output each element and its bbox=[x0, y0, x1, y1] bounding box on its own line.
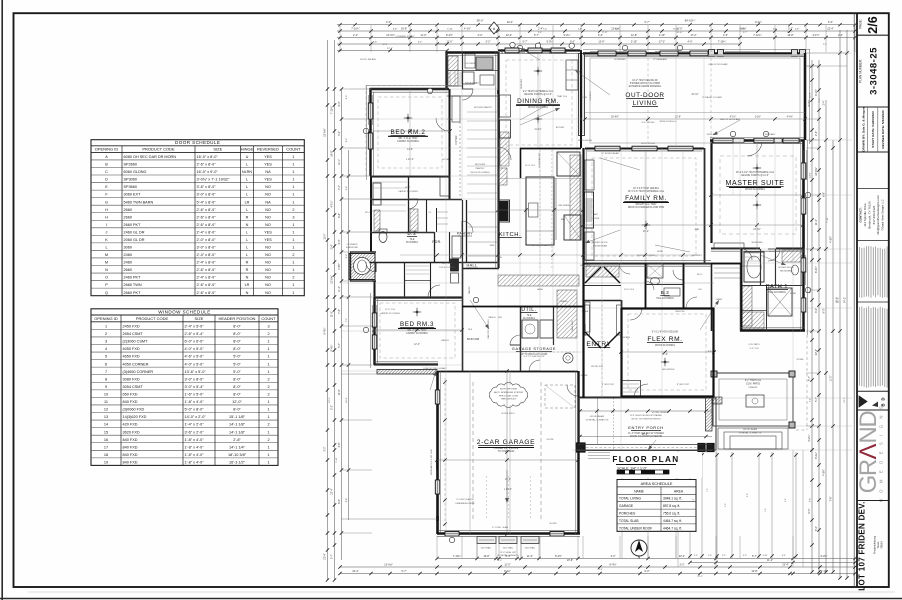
svg-text:4050 FXD: 4050 FXD bbox=[123, 347, 140, 351]
svg-text:5'-7": 5'-7" bbox=[808, 376, 811, 381]
svg-text:YES: YES bbox=[264, 178, 272, 182]
door schedule table frame bbox=[91, 140, 304, 296]
svg-text:3'-2": 3'-2" bbox=[611, 555, 616, 558]
svg-text:(3)0060 FXD: (3)0060 FXD bbox=[123, 408, 145, 412]
svg-text:6'-8": 6'-8" bbox=[822, 192, 825, 197]
svg-text:NO: NO bbox=[265, 276, 271, 280]
svg-text:2'-10": 2'-10" bbox=[659, 34, 665, 37]
svg-text:TOTAL SLAB: TOTAL SLAB bbox=[619, 519, 639, 523]
flex closet shelves bbox=[623, 383, 639, 385]
svg-text:SCULLERY: SCULLERY bbox=[465, 81, 479, 85]
svg-text:76624: 76624 bbox=[880, 541, 884, 549]
svg-text:HALL: HALL bbox=[466, 264, 477, 268]
svg-text:L: L bbox=[246, 163, 248, 167]
svg-text:2450 FXD: 2450 FXD bbox=[123, 324, 140, 328]
svg-text:2: 2 bbox=[267, 393, 269, 397]
svg-text:11'-0": 11'-0" bbox=[809, 92, 811, 98]
svg-text:6'-8": 6'-8" bbox=[338, 213, 341, 218]
wall: family/entry gallery bbox=[583, 300, 621, 302]
wall: bed rm 3 left bbox=[373, 297, 375, 365]
svg-text:COV. PATIO: COV. PATIO bbox=[748, 343, 760, 346]
svg-text:9'-6": 9'-6" bbox=[538, 32, 542, 34]
svg-text:3'-0" x 8'-0": 3'-0" x 8'-0" bbox=[197, 193, 217, 197]
svg-text:4'-2": 4'-2" bbox=[785, 498, 787, 502]
leftmost chain extend bbox=[327, 40, 329, 66]
svg-text:A: A bbox=[105, 155, 108, 159]
svg-text:34'-10": 34'-10" bbox=[691, 93, 699, 96]
ceiling fan symbols bbox=[534, 67, 542, 75]
svg-text:PANTRY SHELVES: PANTRY SHELVES bbox=[487, 319, 490, 339]
svg-text:2/6: 2/6 bbox=[866, 16, 880, 33]
svg-text:9'-0": 9'-0" bbox=[338, 239, 341, 244]
svg-text:N: N bbox=[105, 268, 108, 272]
svg-text:857.8 sq. ft.: 857.8 sq. ft. bbox=[663, 504, 680, 508]
svg-text:1'-9": 1'-9" bbox=[765, 508, 767, 512]
svg-text:11'-0" CLG: 11'-0" CLG bbox=[525, 165, 535, 167]
svg-text:HEADER POSITION: HEADER POSITION bbox=[219, 316, 256, 321]
wall: bed3/garage right interior column bbox=[462, 263, 464, 371]
svg-text:HOLDER 1/2" V SLOPE: HOLDER 1/2" V SLOPE bbox=[494, 448, 519, 450]
svg-text:U: U bbox=[246, 155, 249, 159]
svg-text:2'-4": 2'-4" bbox=[693, 498, 695, 502]
svg-text:NO: NO bbox=[265, 208, 271, 212]
svg-text:OUT-DOOR: OUT-DOOR bbox=[625, 92, 664, 99]
svg-text:16'-3 1/2": 16'-3 1/2" bbox=[229, 461, 246, 465]
area schedule redraw bbox=[617, 480, 696, 532]
svg-text:6'-0": 6'-0" bbox=[645, 570, 650, 573]
svg-text:3'-2": 3'-2" bbox=[680, 563, 685, 566]
svg-text:FIBERMESH REINF: FIBERMESH REINF bbox=[456, 503, 476, 505]
entry porch outline bbox=[578, 398, 716, 450]
wall: hall/util north bbox=[462, 268, 499, 270]
svg-text:5'-7": 5'-7" bbox=[743, 32, 747, 34]
svg-text:2: 2 bbox=[267, 423, 269, 427]
svg-text:FLEX RM.: FLEX RM. bbox=[647, 336, 682, 343]
svg-text:R: R bbox=[246, 268, 249, 272]
b.3 fixtures bbox=[651, 278, 660, 285]
patio column squares bbox=[711, 371, 717, 377]
svg-text:42" RAISED BAR: 42" RAISED BAR bbox=[532, 244, 549, 247]
flex walls emphasis bbox=[620, 308, 622, 397]
svg-text:BENCH: BENCH bbox=[488, 317, 496, 319]
svg-text:11: 11 bbox=[104, 400, 108, 404]
wall: dining top (window band) bbox=[498, 49, 580, 51]
bottom-right vertical chains bbox=[689, 452, 691, 558]
svg-text:4'-6": 4'-6" bbox=[688, 40, 693, 43]
svg-text:3: 3 bbox=[267, 324, 269, 328]
svg-text:BOXED WOOD: BOXED WOOD bbox=[592, 242, 608, 244]
svg-text:HINGE: HINGE bbox=[241, 147, 254, 152]
svg-text:6'-2": 6'-2" bbox=[741, 28, 746, 30]
svg-text:2'-4" x 5'-0": 2'-4" x 5'-0" bbox=[185, 324, 205, 328]
paper trim edge left bbox=[1, 0, 3, 600]
svg-text:H O M E D E S I G N S: H O M E D E S I G N S bbox=[879, 404, 884, 503]
b.2 vanity hatch bbox=[410, 209, 418, 231]
svg-text:14(3)620 FXD: 14(3)620 FXD bbox=[123, 415, 147, 419]
svg-text:1'-8" x 4'-0": 1'-8" x 4'-0" bbox=[185, 445, 205, 449]
garage storage hatch bbox=[521, 351, 578, 353]
svg-text:3'-2": 3'-2" bbox=[324, 446, 327, 451]
right wall connector lines bbox=[806, 65, 819, 67]
svg-text:8" DIA WD COLUMN: 8" DIA WD COLUMN bbox=[702, 96, 722, 99]
dining hutch bbox=[566, 60, 578, 90]
bath1 tile hatches bbox=[742, 312, 764, 329]
svg-text:2654 CSMT: 2654 CSMT bbox=[123, 332, 144, 336]
svg-text:L: L bbox=[246, 246, 248, 250]
svg-text:LINEN: LINEN bbox=[716, 299, 723, 301]
svg-text:WD/LVP CLG. TRAY: WD/LVP CLG. TRAY bbox=[635, 203, 657, 206]
svg-text:2460: 2460 bbox=[124, 253, 132, 257]
svg-text:2060 GL DR: 2060 GL DR bbox=[124, 238, 145, 242]
svg-text:8'-0": 8'-0" bbox=[338, 499, 341, 504]
svg-text:14'-1 1/4": 14'-1 1/4" bbox=[229, 445, 246, 449]
svg-text:1: 1 bbox=[292, 185, 294, 189]
garage interior dashed rails bbox=[472, 382, 474, 520]
svg-text:L: L bbox=[246, 185, 248, 189]
kitchen/dining pass wall bbox=[520, 148, 522, 178]
top-left roof dashes bbox=[365, 86, 367, 177]
svg-text:BATH 1: BATH 1 bbox=[766, 284, 788, 290]
svg-text:5'-0" x 8'-0": 5'-0" x 8'-0" bbox=[185, 408, 205, 412]
kitchen island bbox=[526, 177, 554, 245]
svg-text:2'-10": 2'-10" bbox=[821, 570, 827, 573]
revision cloud note bbox=[490, 385, 528, 405]
svg-text:FLOOR PLAN: FLOOR PLAN bbox=[612, 455, 679, 464]
bottom extra connectors bbox=[476, 544, 478, 559]
svg-text:15'-1 1/8": 15'-1 1/8" bbox=[229, 415, 246, 419]
tray ceiling dashed rects bbox=[378, 97, 442, 168]
patio table bbox=[746, 395, 764, 407]
svg-text:P: P bbox=[105, 283, 108, 287]
svg-text:2660: 2660 bbox=[124, 268, 132, 272]
svg-text:3-3048-25: 3-3048-25 bbox=[869, 47, 880, 95]
title block: PAGE 2/6 cell bbox=[857, 34, 889, 36]
svg-text:YES: YES bbox=[264, 163, 272, 167]
paper trim edge bottom bbox=[0, 598, 902, 600]
title block: drawn-by / dates cell bbox=[857, 151, 889, 153]
svg-text:2660 PKT: 2660 PKT bbox=[124, 223, 142, 227]
svg-text:11'-2": 11'-2" bbox=[767, 559, 773, 562]
svg-text:9'-2¼": 9'-2¼" bbox=[815, 452, 818, 459]
svg-text:D: D bbox=[105, 178, 108, 182]
svg-text:4'-5½": 4'-5½" bbox=[828, 236, 832, 243]
svg-text:Texas: Texas bbox=[876, 541, 880, 549]
svg-text:2'-4": 2'-4" bbox=[815, 131, 818, 136]
svg-text:ROOF LINE ABV: ROOF LINE ABV bbox=[360, 58, 376, 61]
svg-text:10'-2" HIGH CEILING W/: 10'-2" HIGH CEILING W/ bbox=[632, 80, 658, 82]
svg-text:1: 1 bbox=[292, 193, 294, 197]
svg-text:4050 WDWS: 4050 WDWS bbox=[662, 369, 675, 371]
entry porch post right bbox=[698, 444, 705, 452]
svg-text:E: E bbox=[105, 185, 108, 189]
svg-text:5'-10": 5'-10" bbox=[447, 28, 453, 30]
walls: b.3 bath bbox=[645, 263, 647, 308]
svg-text:9'-0": 9'-0" bbox=[822, 308, 825, 313]
svg-text:11'-0": 11'-0" bbox=[446, 40, 452, 43]
svg-text:L: L bbox=[246, 193, 248, 197]
svg-text:AUTO SPRINKLER SYSTEM: AUTO SPRINKLER SYSTEM bbox=[494, 391, 523, 394]
svg-text:74'-2": 74'-2" bbox=[697, 576, 703, 578]
svg-text:SLOPE 1/8:12: SLOPE 1/8:12 bbox=[501, 413, 515, 415]
svg-text:6080 OH SEC GAR DR MORN: 6080 OH SEC GAR DR MORN bbox=[124, 155, 177, 159]
svg-text:9'-2¼": 9'-2¼" bbox=[808, 434, 811, 441]
foyer strip shelves & niches bbox=[467, 111, 497, 113]
svg-text:4'-1½": 4'-1½" bbox=[814, 89, 818, 96]
svg-text:3: 3 bbox=[292, 215, 294, 219]
svg-text:2'-10": 2'-10" bbox=[631, 40, 637, 43]
svg-text:BUTLERS: BUTLERS bbox=[475, 164, 486, 166]
svg-text:NICHE: NICHE bbox=[593, 218, 600, 220]
window seat master bbox=[714, 243, 744, 249]
svg-text:9'-2¼": 9'-2¼" bbox=[504, 570, 511, 573]
svg-text:17'-2": 17'-2" bbox=[690, 34, 696, 37]
svg-text:2: 2 bbox=[267, 377, 269, 381]
garage door center dashes bbox=[436, 461, 438, 470]
svg-text:L: L bbox=[246, 208, 248, 212]
svg-text:OPENING ID: OPENING ID bbox=[95, 147, 119, 152]
window glazing marks bbox=[505, 48, 525, 50]
svg-text:M.CL.: M.CL. bbox=[697, 274, 703, 276]
svg-text:2'-6" x 5'-4": 2'-6" x 5'-4" bbox=[185, 332, 205, 336]
svg-text:W/D: W/D bbox=[498, 317, 503, 319]
svg-text:7'-2": 7'-2" bbox=[346, 318, 348, 323]
svg-text:info@grandhomedesigns.com: info@grandhomedesigns.com bbox=[876, 195, 880, 235]
svg-text:3'-2": 3'-2" bbox=[486, 40, 491, 43]
svg-text:8'-11": 8'-11" bbox=[673, 28, 679, 30]
svg-text:BUTLER: BUTLER bbox=[556, 127, 565, 129]
svg-text:11'-10": 11'-10" bbox=[534, 128, 541, 131]
more interior art lines entry bbox=[601, 300, 603, 398]
wall: mud block left bbox=[445, 52, 447, 90]
svg-text:18'-10 3/8": 18'-10 3/8" bbox=[228, 453, 247, 457]
door arc: front entry door bbox=[634, 384, 648, 398]
svg-text:8'-0": 8'-0" bbox=[338, 101, 341, 106]
svg-text:WOOD FLOORING: WOOD FLOORING bbox=[745, 189, 765, 191]
svg-text:1: 1 bbox=[267, 445, 269, 449]
svg-text:WINE: WINE bbox=[657, 251, 663, 253]
svg-text:J: J bbox=[106, 230, 108, 234]
svg-text:4'-1½": 4'-1½" bbox=[812, 33, 819, 37]
svg-text:22'-4": 22'-4" bbox=[324, 553, 327, 559]
svg-text:N: N bbox=[246, 276, 249, 280]
svg-text:NO: NO bbox=[265, 291, 271, 295]
bath cluster extra walls bbox=[404, 262, 406, 297]
svg-text:74'-2": 74'-2" bbox=[843, 297, 846, 303]
svg-text:CONTACT:: CONTACT: bbox=[859, 207, 863, 222]
svg-text:TOTAL LIVING: TOTAL LIVING bbox=[619, 497, 641, 501]
svg-text:2'-2": 2'-2" bbox=[722, 555, 726, 557]
svg-text:8'-0": 8'-0" bbox=[233, 347, 241, 351]
entry closet bbox=[585, 302, 590, 332]
svg-text:3'-2": 3'-2" bbox=[331, 405, 334, 410]
bath1 toilet bbox=[792, 265, 799, 275]
svg-text:3620 FXD: 3620 FXD bbox=[123, 430, 140, 434]
svg-text:NLRN: NLRN bbox=[242, 170, 253, 174]
porch/patio stone hatch strip bbox=[706, 397, 713, 431]
svg-text:RIDGE ABV: RIDGE ABV bbox=[780, 270, 792, 273]
svg-text:H: H bbox=[105, 215, 108, 219]
svg-text:W.I.C.: W.I.C. bbox=[405, 187, 411, 189]
svg-text:GARAGE STORAGE: GARAGE STORAGE bbox=[512, 347, 556, 351]
svg-text:6'-0": 6'-0" bbox=[815, 526, 818, 531]
svg-text:2'-0" x 8'-0": 2'-0" x 8'-0" bbox=[197, 238, 217, 242]
svg-text:11'-2": 11'-2" bbox=[338, 286, 341, 292]
svg-text:2'-6": 2'-6" bbox=[795, 28, 800, 30]
svg-text:10: 10 bbox=[104, 393, 108, 397]
svg-text:4" CONC SLAB W/: 4" CONC SLAB W/ bbox=[456, 498, 474, 501]
svg-text:PDR.: PDR. bbox=[432, 240, 441, 244]
roofline offsets bbox=[583, 49, 810, 51]
svg-text:13: 13 bbox=[104, 415, 108, 419]
util top wall emphasis bbox=[462, 306, 583, 308]
svg-text:840 FXD: 840 FXD bbox=[123, 453, 138, 457]
svg-text:5460 TWN BARN: 5460 TWN BARN bbox=[124, 200, 154, 204]
svg-text:4'-0" x 5'-0": 4'-0" x 5'-0" bbox=[185, 347, 205, 351]
svg-text:9' X 11'-8" HIGH CEILING: 9' X 11'-8" HIGH CEILING bbox=[652, 332, 679, 334]
svg-text:4'-6": 4'-6" bbox=[723, 34, 728, 37]
hall closet small rects bbox=[452, 236, 461, 258]
svg-text:NO: NO bbox=[265, 223, 271, 227]
svg-text:1: 1 bbox=[292, 283, 294, 287]
svg-text:9'-4": 9'-4" bbox=[498, 560, 503, 562]
wall: master bottom bbox=[711, 248, 760, 250]
wall: bed rm 3 bottom bbox=[374, 363, 438, 365]
svg-text:16' & 9'-1/2" HIGH CATHEDRAL C: 16' & 9'-1/2" HIGH CATHEDRAL CLG bbox=[736, 171, 775, 174]
svg-text:LIN.: LIN. bbox=[698, 289, 702, 291]
svg-text:2660: 2660 bbox=[124, 208, 132, 212]
wall: family glass sliding wall bbox=[585, 148, 704, 150]
svg-text:420 FXD: 420 FXD bbox=[123, 423, 138, 427]
family leaders/texts bbox=[600, 158, 640, 170]
svg-text:9'-2¼": 9'-2¼" bbox=[546, 40, 553, 43]
door arc: kitchen door bbox=[498, 147, 511, 160]
svg-text:52'-0": 52'-0" bbox=[836, 297, 839, 303]
outdoor living inner dashed beam lines bbox=[590, 58, 800, 143]
svg-text:1'-6": 1'-6" bbox=[707, 488, 709, 492]
svg-text:LINE OF ROOF ABV: LINE OF ROOF ABV bbox=[708, 63, 728, 66]
svg-text:12'-8": 12'-8" bbox=[751, 570, 757, 573]
wall: bath1 right exterior bbox=[802, 249, 804, 331]
svg-text:7'-10¾": 7'-10¾" bbox=[753, 34, 762, 37]
pdr fixtures column bbox=[451, 259, 459, 271]
svg-text:8'-0": 8'-0" bbox=[233, 340, 241, 344]
svg-text:BED RM.2: BED RM.2 bbox=[391, 129, 426, 136]
svg-text:3'-0" x 8'-0": 3'-0" x 8'-0" bbox=[185, 377, 205, 381]
svg-text:DW: DW bbox=[498, 257, 502, 259]
title block: legal paragraph 2 bbox=[857, 301, 889, 303]
wall: entry east / flex west bbox=[621, 300, 623, 398]
svg-text:9'-2¼": 9'-2¼" bbox=[755, 21, 762, 24]
svg-text:17: 17 bbox=[104, 445, 108, 449]
svg-text:SP3060: SP3060 bbox=[124, 178, 138, 182]
door arc: garage storage door bbox=[529, 360, 540, 371]
svg-text:22'-4": 22'-4" bbox=[507, 21, 513, 24]
svg-text:1'-8" x 4'-0": 1'-8" x 4'-0" bbox=[185, 400, 205, 404]
svg-text:x 12'-2": x 12'-2" bbox=[406, 158, 414, 161]
svg-text:3'-0" x 8'-0": 3'-0" x 8'-0" bbox=[197, 246, 217, 250]
svg-text:1: 1 bbox=[267, 408, 269, 412]
svg-text:3'-0": 3'-0" bbox=[725, 503, 727, 507]
svg-text:L: L bbox=[246, 230, 248, 234]
svg-text:3048.1 sq. ft.: 3048.1 sq. ft. bbox=[663, 497, 682, 501]
wall: family bottom bbox=[583, 263, 711, 265]
svg-text:WD. 4' CLG. TRAY: WD. 4' CLG. TRAY bbox=[398, 137, 418, 140]
svg-text:1: 1 bbox=[267, 400, 269, 404]
wall: garage left exterior bbox=[436, 371, 439, 521]
svg-text:2: 2 bbox=[292, 276, 294, 280]
svg-text:2460 PKT: 2460 PKT bbox=[124, 276, 142, 280]
svg-text:HANG: HANG bbox=[537, 288, 543, 291]
wall: garage right bbox=[577, 371, 579, 534]
svg-text:17'-2": 17'-2" bbox=[659, 40, 665, 43]
wall: garage bottom exterior bbox=[437, 532, 580, 535]
svg-text:LINE OF ROOF ABV: LINE OF ROOF ABV bbox=[720, 118, 741, 121]
master bed tray dashed bbox=[720, 156, 796, 234]
svg-text:7'-6": 7'-6" bbox=[829, 496, 832, 501]
svg-text:HANG ROD: HANG ROD bbox=[571, 320, 574, 331]
section marker diamond A bbox=[489, 22, 499, 34]
svg-text:7'-10": 7'-10" bbox=[827, 217, 829, 223]
svg-text:NAME: NAME bbox=[634, 489, 645, 493]
garage door dashed arcs bbox=[486, 476, 488, 520]
svg-text:1: 1 bbox=[292, 230, 294, 234]
svg-text:TOTAL UNDER ROOF: TOTAL UNDER ROOF bbox=[619, 526, 652, 530]
svg-text:2'-4": 2'-4" bbox=[353, 34, 358, 37]
svg-text:2'-4" x 8'-0": 2'-4" x 8'-0" bbox=[197, 261, 217, 265]
svg-text:22'-4": 22'-4" bbox=[352, 570, 358, 573]
svg-text:COV. PATIO: COV. PATIO bbox=[746, 382, 760, 386]
svg-text:SLOPE: SLOPE bbox=[547, 439, 555, 441]
svg-text:5'-0": 5'-0" bbox=[233, 370, 241, 374]
svg-text:2460: 2460 bbox=[124, 261, 132, 265]
svg-text:8: 8 bbox=[105, 377, 107, 381]
svg-text:BUTLERS PANTRY: BUTLERS PANTRY bbox=[474, 106, 492, 109]
svg-text:NO: NO bbox=[265, 215, 271, 219]
svg-text:14: 14 bbox=[104, 423, 108, 427]
linen shelves center bbox=[437, 211, 448, 213]
svg-text:22'-4": 22'-4" bbox=[827, 27, 833, 30]
svg-text:3060: 3060 bbox=[124, 246, 132, 250]
svg-text:CEILING STARTS @ 11'-0": CEILING STARTS @ 11'-0" bbox=[741, 174, 769, 177]
svg-text:NO: NO bbox=[265, 283, 271, 287]
svg-text:6060 GLDNG: 6060 GLDNG bbox=[124, 170, 147, 174]
svg-text:PRODUCT CODE: PRODUCT CODE bbox=[136, 316, 169, 321]
svg-text:3'-2": 3'-2" bbox=[338, 131, 341, 136]
svg-text:SP2660: SP2660 bbox=[124, 163, 138, 167]
svg-text:8'-4½": 8'-4½" bbox=[323, 327, 327, 334]
right dimension chain lines bbox=[811, 60, 813, 572]
svg-text:8" WD POST: 8" WD POST bbox=[677, 384, 690, 386]
svg-text:WOOD FLR: WOOD FLR bbox=[591, 366, 603, 368]
graphic scale bar bbox=[617, 470, 669, 474]
svg-text:22'-4": 22'-4" bbox=[679, 555, 685, 558]
svg-text:DRAWN BY: Dale G. & Morgan: DRAWN BY: Dale G. & Morgan bbox=[862, 107, 866, 151]
wall: pantry west bbox=[466, 200, 468, 262]
svg-text:ART: ART bbox=[594, 213, 599, 216]
svg-text:9'-8": 9'-8" bbox=[809, 498, 811, 503]
svg-text:N: N bbox=[246, 223, 249, 227]
svg-text:1: 1 bbox=[292, 268, 294, 272]
svg-text:6'-8": 6'-8" bbox=[393, 28, 398, 30]
svg-text:STONE VENEER: STONE VENEER bbox=[651, 412, 669, 414]
svg-text:12'-0": 12'-0" bbox=[232, 400, 242, 404]
porch bottom double edge bbox=[578, 444, 712, 446]
wall: master suite left bbox=[710, 140, 712, 243]
svg-text:8'-0": 8'-0" bbox=[233, 332, 241, 336]
bath1 shower X bbox=[768, 288, 792, 316]
door arc: master patio door bbox=[768, 249, 780, 261]
wall: entry west bbox=[583, 263, 585, 398]
